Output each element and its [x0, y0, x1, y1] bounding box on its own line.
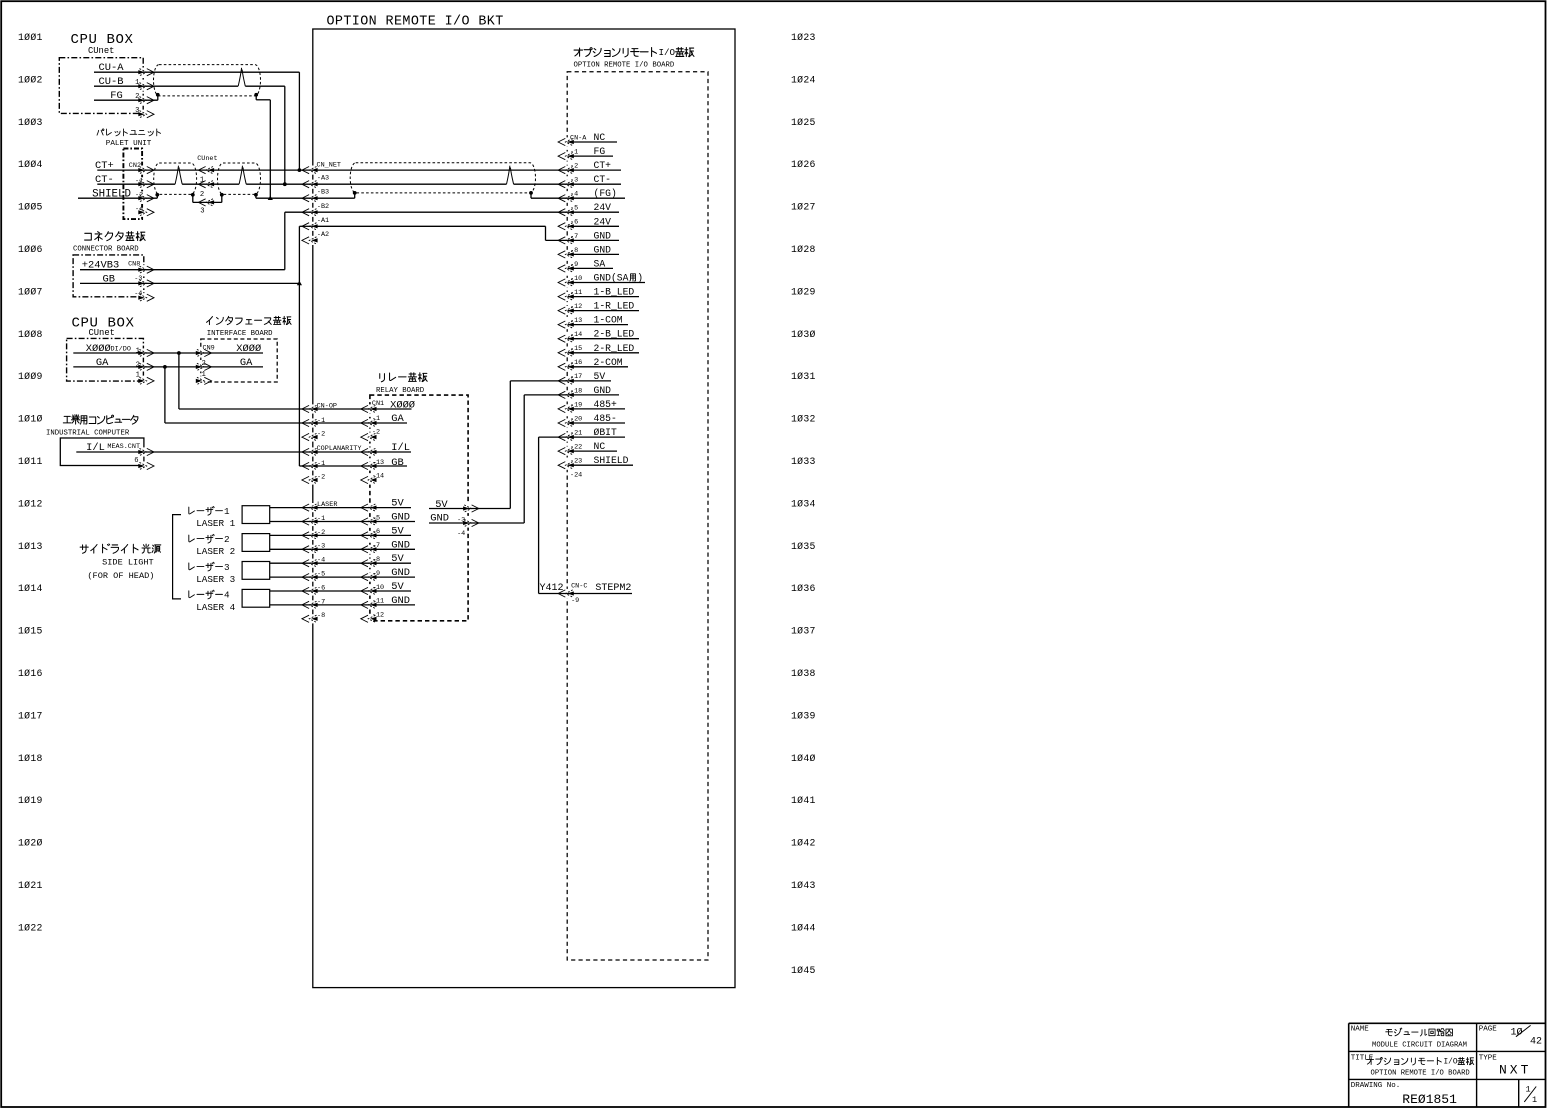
wire laser box to LASER row 2 — [270, 521, 312, 523]
svg-text:1-B_LED: 1-B_LED — [594, 287, 635, 298]
svg-text:1Ø32: 1Ø32 — [791, 414, 816, 425]
svg-text:-2: -2 — [135, 192, 143, 200]
svg-text:+24VB3: +24VB3 — [82, 260, 119, 272]
title block — [1349, 1022, 1546, 1024]
svg-text:-24: -24 — [570, 472, 582, 480]
pin -4 / signal (FG) — [568, 188, 626, 199]
svg-text:485-: 485- — [594, 413, 617, 424]
svg-text:1Ø41: 1Ø41 — [791, 795, 816, 806]
wire laser box to LASER row 7 — [270, 590, 312, 592]
connector pin relay laser row 5 — [361, 560, 377, 567]
svg-text:-A3: -A3 — [317, 175, 329, 183]
svg-text:MEAS.CNT: MEAS.CNT — [107, 443, 140, 451]
svg-text:-6: -6 — [317, 584, 325, 592]
svg-text:CN-OP: CN-OP — [317, 403, 337, 411]
wire shield jumper up — [221, 195, 223, 203]
connector pin CN-A row 23 — [558, 448, 574, 455]
connector pin CN-A row 4 — [558, 181, 574, 188]
shield dot — [220, 193, 224, 197]
wire -A1 jog down — [545, 226, 547, 240]
twist symbol CUnet cable — [238, 68, 245, 86]
pin -22 / signal NC — [568, 441, 618, 452]
svg-text:1-COM: 1-COM — [594, 315, 623, 326]
pin -7 / signal GND — [568, 230, 620, 241]
label オプションリモートI/O基板 — [574, 48, 582, 56]
connector pin CPU BOX FG 2 — [138, 97, 154, 104]
svg-text:LASER: LASER — [317, 501, 337, 509]
svg-text:CN-C: CN-C — [571, 583, 587, 591]
wire SHIELD row — [78, 197, 157, 199]
connector pin CN_NET — [302, 167, 318, 174]
connector pin relay laser row 1 — [361, 504, 377, 511]
svg-text:-12: -12 — [570, 303, 582, 311]
wire -A1 row inner — [311, 225, 545, 227]
svg-text:CT-: CT- — [95, 174, 114, 186]
connector pin CN9 1 — [196, 377, 212, 384]
wire FG stub to cable shield — [157, 95, 159, 100]
wire LASER row 2 to relay — [311, 521, 370, 523]
svg-text:CN9: CN9 — [203, 345, 215, 353]
svg-text:NC: NC — [594, 441, 606, 452]
connector pin relay laser row 8 — [361, 601, 377, 608]
pin -17 / signal 5V — [568, 371, 612, 382]
svg-text:-9: -9 — [571, 597, 579, 605]
svg-text:-2: -2 — [317, 529, 325, 537]
connector pin CPU BOX 3 — [138, 111, 154, 118]
svg-text:SIDE LIGHT: SIDE LIGHT — [102, 558, 154, 568]
svg-text:1ØØ7: 1ØØ7 — [18, 286, 43, 297]
wire shield jumper pin3 — [193, 201, 222, 203]
svg-text:-2: -2 — [317, 431, 325, 439]
connector pin CN-A row 17 — [558, 363, 574, 370]
svg-text:1Ø43: 1Ø43 — [791, 880, 816, 891]
pin -21 / signal ØBIT — [568, 427, 626, 438]
wire laser box to LASER row 3 — [270, 534, 312, 536]
wire laser box to LASER row 8 — [270, 604, 312, 606]
junction shield/-B3 — [268, 196, 273, 200]
pin -11 / signal 1-B_LED — [568, 287, 640, 298]
label laser 4 — [189, 591, 195, 598]
wire laser box to LASER row 6 — [270, 576, 312, 578]
svg-text:OPTION REMOTE I/O BOARD: OPTION REMOTE I/O BOARD — [574, 62, 675, 70]
svg-text:1Ø11: 1Ø11 — [18, 456, 43, 467]
svg-text:3: 3 — [224, 562, 230, 573]
svg-text:1Ø21: 1Ø21 — [18, 880, 43, 891]
connector pin CPU BOX DI/DO 2 GA — [138, 363, 154, 370]
svg-text:-3: -3 — [457, 517, 465, 525]
svg-text:CN8: CN8 — [128, 261, 140, 269]
svg-text:5V: 5V — [435, 499, 448, 511]
twist symbol palet cable 1 — [175, 166, 182, 185]
svg-text:-5: -5 — [317, 571, 325, 579]
svg-text:1Ø25: 1Ø25 — [791, 117, 816, 128]
svg-text:-1: -1 — [317, 515, 325, 523]
connector pin CN_NET -A2 — [302, 237, 318, 244]
wire -B3 to cable shield — [311, 197, 354, 199]
svg-text:Y412: Y412 — [540, 583, 564, 594]
connector pin CUnet inline 1 — [198, 167, 214, 174]
pin -16 / signal 2-COM — [568, 357, 629, 368]
label laser 1 — [189, 507, 195, 514]
svg-text:24V: 24V — [594, 216, 612, 227]
svg-text:1Ø29: 1Ø29 — [791, 286, 816, 297]
wire GB to COPLANARITY -1 — [299, 465, 311, 467]
connector pin relay laser row 3 — [361, 532, 377, 539]
wire 5V to pin 17 — [510, 380, 567, 382]
svg-text:-3: -3 — [317, 543, 325, 551]
wire COPLANARITY -1 to relay GB — [311, 465, 370, 467]
svg-text:-21: -21 — [570, 429, 582, 437]
connector pin CN-A row 1 — [558, 138, 574, 145]
connector pin CN-A row 11 — [558, 279, 574, 286]
connector pin CN2 -2 SHIELD — [138, 195, 154, 202]
wire shield stub — [354, 193, 356, 198]
connector pin MEAS.CNT 6 — [138, 462, 154, 469]
svg-text:-14: -14 — [372, 473, 384, 481]
svg-text:FG: FG — [110, 90, 122, 102]
connector pin CN9 2 GA — [196, 363, 212, 370]
svg-text:CONNECTOR BOARD: CONNECTOR BOARD — [73, 246, 139, 254]
svg-text:1Ø18: 1Ø18 — [18, 753, 43, 764]
svg-text:INDUSTRIAL COMPUTER: INDUSTRIAL COMPUTER — [46, 430, 130, 438]
pin -13 / signal 1-COM — [568, 315, 629, 326]
connector pin CN-A row 15 — [558, 335, 574, 342]
svg-text:1Ø37: 1Ø37 — [791, 626, 816, 637]
connector pin CPU BOX CU-A — [138, 69, 154, 76]
connector pin COPLANARITY -2 — [302, 476, 318, 483]
svg-text:-13: -13 — [570, 317, 582, 325]
svg-text:2: 2 — [224, 534, 230, 545]
svg-text:-1: -1 — [317, 460, 325, 468]
svg-text:2: 2 — [136, 361, 140, 369]
svg-text:3: 3 — [200, 207, 204, 215]
wire LASER row 8 to relay — [311, 604, 370, 606]
svg-text:1Ø12: 1Ø12 — [18, 498, 43, 509]
laser box 2 — [242, 534, 270, 552]
wire GND source — [429, 522, 524, 524]
svg-text:GND(SA: GND(SA — [594, 273, 629, 284]
svg-text:2: 2 — [202, 360, 206, 368]
svg-text:NXT: NXT — [1499, 1063, 1531, 1078]
connector pin CN-C STEPM2 — [558, 590, 574, 597]
svg-text:1Ø16: 1Ø16 — [18, 668, 43, 679]
wire LASER row 7 to relay — [311, 590, 370, 592]
svg-text:-1: -1 — [570, 149, 578, 157]
svg-text:CUnet: CUnet — [88, 46, 114, 56]
connector pin LASER -8 — [302, 615, 318, 622]
svg-text:TYPE: TYPE — [1479, 1054, 1498, 1062]
wire laser box to LASER row 5 — [270, 562, 312, 564]
laser box 4 — [242, 589, 270, 607]
wire FG from CPU BOX — [94, 99, 158, 101]
RELAY BOARD dashed box — [370, 395, 468, 621]
connector pin GND source -3 — [463, 519, 479, 526]
junction X000 — [177, 351, 181, 355]
connector pin CN-OP -2 — [302, 433, 318, 440]
svg-text:2-R_LED: 2-R_LED — [594, 343, 635, 354]
cable shield oval palet 2 — [218, 163, 261, 194]
connector pin LASER -7 — [302, 601, 318, 608]
connector pin CN-A row 22 — [558, 433, 574, 440]
wire COPLANARITY to relay I/L — [311, 451, 370, 453]
label インタフェース基板 — [207, 317, 213, 325]
svg-text:LASER 1: LASER 1 — [196, 518, 235, 529]
svg-text:42: 42 — [1530, 1037, 1542, 1048]
svg-text:-7: -7 — [570, 233, 578, 241]
shield dot — [353, 191, 357, 195]
svg-text:DRAWING No.: DRAWING No. — [1351, 1082, 1401, 1090]
svg-text:STEPM2: STEPM2 — [595, 583, 631, 594]
twist symbol palet cable 2 — [239, 166, 246, 185]
connector pin CN-A row 5 — [558, 195, 574, 202]
svg-text:-2: -2 — [570, 163, 578, 171]
wire LASER row 3 to relay — [311, 534, 370, 536]
svg-text:INTERFACE BOARD: INTERFACE BOARD — [207, 330, 273, 338]
svg-text:GB: GB — [391, 457, 403, 469]
wire LASER row 6 to relay — [311, 576, 370, 578]
svg-text:485+: 485+ — [594, 399, 617, 410]
svg-text:SA: SA — [594, 258, 606, 269]
shield dot — [155, 193, 159, 197]
svg-text:1Ø27: 1Ø27 — [791, 202, 816, 213]
connector pin CN-A row 8 — [558, 237, 574, 244]
connector pin CN1 -13 GB — [361, 462, 377, 469]
svg-text:GND: GND — [430, 513, 449, 525]
svg-text:-17: -17 — [570, 373, 582, 381]
svg-text:PAGE: PAGE — [1479, 1026, 1498, 1034]
svg-text:1Ø13: 1Ø13 — [18, 541, 43, 552]
junction GA — [163, 365, 167, 369]
svg-text:LASER 2: LASER 2 — [196, 546, 235, 557]
svg-text:XØØØ: XØØØ — [86, 343, 111, 355]
pin -20 / signal 485- — [568, 413, 626, 424]
svg-text:-8: -8 — [317, 612, 325, 620]
connector pin CN_NET -B3 — [302, 195, 318, 202]
svg-text:CT-: CT- — [594, 174, 611, 185]
svg-text:): ) — [637, 273, 643, 284]
svg-text:1: 1 — [136, 372, 140, 380]
svg-text:-4: -4 — [570, 191, 578, 199]
svg-text:CT+: CT+ — [594, 160, 612, 171]
pin -12 / signal 1-R_LED — [568, 301, 640, 312]
shield dot — [254, 93, 258, 97]
svg-text:-4: -4 — [134, 290, 142, 298]
connector pin relay laser row 4 — [361, 546, 377, 553]
twist symbol CN_NET cable — [507, 166, 514, 185]
svg-text:-20: -20 — [570, 415, 582, 423]
junction CU-B/CT- — [283, 182, 287, 186]
svg-text:1ØØ1: 1ØØ1 — [18, 32, 43, 43]
svg-text:(FOR OF HEAD): (FOR OF HEAD) — [87, 571, 154, 581]
svg-text:CN-A: CN-A — [570, 134, 587, 142]
svg-text:-A2: -A2 — [317, 231, 329, 239]
svg-text:1-R_LED: 1-R_LED — [594, 301, 635, 312]
connector pin CN2 CT+ — [138, 167, 154, 174]
svg-text:1: 1 — [1532, 1095, 1537, 1105]
connector pin CN_NET -B2 — [302, 209, 318, 216]
connector pin CN2 -4 — [138, 209, 154, 216]
shield dot — [254, 193, 258, 197]
pin -5 / signal 24V — [568, 202, 620, 213]
label laser 2 — [189, 535, 195, 542]
laser group bracket — [173, 515, 181, 599]
connector pin LASER -3 — [302, 546, 318, 553]
svg-text:CN_NET: CN_NET — [317, 161, 341, 169]
wire GB — [80, 282, 299, 284]
svg-text:1ØØ2: 1ØØ2 — [18, 74, 43, 85]
connector pin CN1 -2 — [361, 433, 377, 440]
pin -15 / signal 2-R_LED — [568, 343, 640, 354]
svg-text:I/O: I/O — [659, 47, 676, 58]
svg-text:-2: -2 — [317, 473, 325, 481]
svg-text:1Ø4Ø: 1Ø4Ø — [791, 753, 816, 764]
svg-text:-8: -8 — [570, 247, 578, 255]
connector pin CN-A row 12 — [558, 293, 574, 300]
label オプションリモートI/O基板 (title) — [1367, 1058, 1374, 1065]
wire GA interface — [202, 366, 263, 368]
svg-text:-4: -4 — [317, 557, 325, 565]
wire -A3 to CT- — [311, 183, 506, 185]
svg-text:1Ø26: 1Ø26 — [791, 159, 816, 170]
connector pin CN-A row 14 — [558, 321, 574, 328]
svg-text:LASER 4: LASER 4 — [196, 602, 235, 613]
cable shield oval CPU BOX CUnet — [154, 65, 261, 96]
INTERFACE BOARD dashed box — [201, 339, 277, 382]
svg-text:CU-B: CU-B — [99, 76, 124, 88]
svg-text:1Ø3Ø: 1Ø3Ø — [791, 329, 816, 340]
connector pin CN_NET -A1 — [302, 223, 318, 230]
svg-text:-2: -2 — [372, 429, 380, 437]
wire laser box to LASER row 1 — [270, 507, 312, 509]
connector pin CN-OP — [302, 405, 318, 412]
wire vertical CU-A drop — [298, 72, 300, 170]
svg-text:1Ø33: 1Ø33 — [791, 456, 816, 467]
connector pin LASER -2 — [302, 532, 318, 539]
wire -B2 to 24V — [311, 211, 567, 213]
wire CT+ row to CN_NET — [97, 169, 311, 171]
svg-text:LASER 3: LASER 3 — [196, 574, 235, 585]
cable shield oval CN_NET — [350, 163, 535, 193]
wire CT- row to -A3 — [97, 183, 175, 185]
connector pin CN_NET -A3 — [302, 181, 318, 188]
connector pin CN-A row 9 — [558, 251, 574, 258]
svg-text:1Ø19: 1Ø19 — [18, 795, 43, 806]
pin -14 / signal 2-B_LED — [568, 329, 640, 340]
svg-text:24V: 24V — [594, 202, 612, 213]
connector pin CN-A row 16 — [558, 349, 574, 356]
connector pin CN-OP -1 — [302, 419, 318, 426]
label パレットユニット — [97, 129, 104, 135]
CONNECTOR BOARD dash-dot box — [73, 255, 144, 297]
wire shield jumper down — [192, 195, 194, 203]
svg-text:GND: GND — [594, 385, 612, 396]
svg-text:GA: GA — [96, 357, 109, 369]
connector pin relay laser row 6 — [361, 574, 377, 581]
right line-number column 1023-1045 — [791, 32, 816, 976]
connector pin LASER -4 — [302, 560, 318, 567]
svg-text:2: 2 — [135, 93, 139, 101]
wire I/L MEAS.CNT to COPLANARITY — [76, 451, 311, 453]
shield dot — [529, 191, 533, 195]
laser box 3 — [242, 562, 270, 580]
svg-text:4: 4 — [224, 590, 230, 601]
connector pin CPU BOX CU-B 1 — [138, 83, 154, 90]
wire GND to pin 18 — [524, 394, 567, 396]
svg-text:(FG): (FG) — [594, 188, 617, 199]
connector pin CN8 +24VB3 — [138, 266, 154, 273]
wire shield stub right — [530, 193, 532, 198]
wire LASER row 5 to relay — [311, 562, 370, 564]
svg-text:GB: GB — [103, 273, 115, 285]
svg-text:1Ø42: 1Ø42 — [791, 838, 816, 849]
svg-text:-11: -11 — [570, 289, 582, 297]
wire X000 drop — [178, 353, 180, 409]
svg-text:OPTION REMOTE I/O BOARD: OPTION REMOTE I/O BOARD — [1371, 1069, 1470, 1077]
wire GND riser — [523, 395, 525, 523]
connector pin CN1 -14 — [361, 476, 377, 483]
svg-text:MODULE CIRCUIT DIAGRAM: MODULE CIRCUIT DIAGRAM — [1372, 1041, 1467, 1049]
pin -8 / signal GND — [568, 244, 620, 255]
wire 0BIT — [539, 436, 568, 438]
wire CN-OP -1 to relay -1 — [311, 422, 370, 424]
svg-text:SHIELD: SHIELD — [92, 189, 131, 201]
wire +24VB3 — [80, 269, 285, 271]
svg-text:CN2: CN2 — [129, 162, 141, 170]
connector pin MEAS.CNT I/L — [138, 448, 154, 455]
connector pin CN1 I/L — [361, 448, 377, 455]
svg-text:-14: -14 — [570, 331, 582, 339]
connector pin CUnet inline 2 — [198, 181, 214, 188]
connector pin 5V source — [463, 505, 479, 512]
svg-text:-1: -1 — [135, 178, 143, 186]
svg-text:-4: -4 — [135, 206, 143, 214]
wire Y412 STEPM2 — [539, 593, 568, 595]
svg-text:FG: FG — [594, 146, 606, 157]
svg-text:1Ø45: 1Ø45 — [791, 965, 816, 976]
INDUSTRIAL COMPUTER solid box — [60, 438, 144, 466]
svg-text:XØØØ: XØØØ — [236, 343, 261, 355]
svg-text:COPLANARITY: COPLANARITY — [317, 445, 362, 453]
svg-text:-3: -3 — [134, 275, 142, 283]
connector pin CN-A row 24 — [558, 462, 574, 469]
wire SHIELD stub up — [156, 195, 158, 198]
connector pin CN-A row 20 — [558, 405, 574, 412]
pin -18 / signal GND — [568, 385, 620, 396]
pin -23 / signal SHIELD — [568, 455, 634, 466]
label laser 3 — [189, 563, 195, 570]
CPU BOX (CUnet) dash-dot box — [59, 58, 143, 114]
pin -3 / signal CT- — [568, 174, 622, 185]
connector pin CN8 -3 GB — [138, 280, 154, 287]
svg-text:-19: -19 — [570, 401, 582, 409]
svg-text:CUnet: CUnet — [89, 328, 115, 338]
label コネクタ基板 — [85, 233, 92, 240]
wire shield down to -B3 row — [255, 195, 257, 198]
wire -B2 row — [285, 211, 312, 213]
svg-text:ØBIT: ØBIT — [594, 427, 617, 438]
connector pin CN-A row 13 — [558, 307, 574, 314]
svg-text:-3: -3 — [570, 177, 578, 185]
svg-text:NC: NC — [594, 132, 606, 143]
connector pin CN-A row 21 — [558, 419, 574, 426]
svg-text:-1: -1 — [317, 417, 325, 425]
svg-text:I/O: I/O — [1444, 1059, 1458, 1067]
svg-text:-12: -12 — [372, 612, 384, 620]
svg-text:1Ø1Ø: 1Ø1Ø — [18, 414, 43, 425]
svg-text:CN1: CN1 — [372, 400, 384, 408]
svg-text:1Ø22: 1Ø22 — [18, 922, 43, 933]
wire 0BIT drop to STEPM2 — [538, 437, 540, 593]
